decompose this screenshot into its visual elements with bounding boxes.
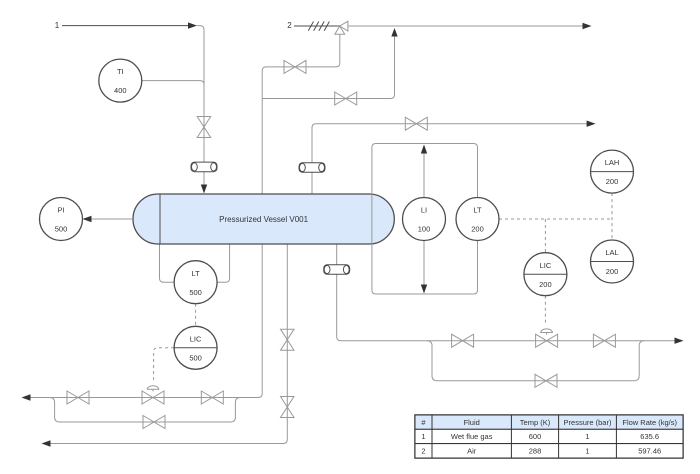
valve left line gate 2 [201,391,223,404]
svg-text:Fluid: Fluid [464,418,480,427]
hash marks stream 2 [308,22,329,31]
valve on relief inlet header [284,60,306,73]
svg-text:2: 2 [421,446,425,455]
svg-text:2: 2 [287,21,292,30]
instrument LAL 200 [591,240,634,283]
svg-text:LAH: LAH [605,158,620,167]
valve on feed line (vertical) [197,117,211,138]
valve drain lower (vertical) [281,397,295,418]
wire dashed LT500 to LIC500 [195,304,197,327]
svg-text:200: 200 [606,177,619,186]
svg-text:LAL: LAL [605,248,618,257]
arrow into vessel top [201,185,207,194]
svg-text:600: 600 [529,432,542,441]
valve on gas outlet [405,117,427,130]
svg-text:Pressurized Vessel V001: Pressurized Vessel V001 [219,215,308,224]
svg-text:288: 288 [529,446,542,455]
fitting on feed line [191,162,217,172]
wire branch line to flare with up arrow [262,34,394,99]
svg-text:200: 200 [606,267,619,276]
wire stream 2 inlet to relief valve [294,25,340,27]
wire LT500 right tap [217,244,230,282]
svg-text:LT: LT [473,206,482,215]
svg-text:635.6: 635.6 [640,432,659,441]
arrow liquid outlet right [675,338,684,344]
svg-text:1: 1 [585,432,589,441]
valve drain upper (vertical) [281,329,295,350]
instrument LAH 200 [591,150,634,193]
wire feed pipe down to vessel [197,26,204,185]
valve left line gate 1 [67,391,89,404]
fitting on liquid outlet [324,265,350,275]
control valve LV500 [142,386,164,404]
arrow drain left [42,440,51,446]
wire vessel top outlet to right arrow [312,124,588,194]
arrow flare outlet [583,23,592,29]
arrow stream 1 [188,22,197,28]
arrow gauge span up [421,145,427,154]
arrow blowdown left [22,394,31,400]
svg-text:200: 200 [471,225,484,234]
valve on flare branch [335,92,357,105]
instrument LIC 500 [174,326,217,369]
svg-text:LI: LI [421,206,427,215]
instrument LT 500 [174,261,217,304]
wire vessel bottom liquid outlet to right [337,244,675,341]
svg-text:500: 500 [55,225,68,234]
svg-text:500: 500 [189,288,202,297]
instrument LT 200 [456,198,499,241]
svg-text:PI: PI [57,206,64,215]
svg-text:Pressure (bar): Pressure (bar) [564,418,612,427]
svg-text:597.46: 597.46 [638,446,661,455]
wire dashed branch to LIC200 [544,219,546,253]
fitting on vessel top pipe [299,163,325,173]
wire stream 1 inlet [62,25,189,27]
svg-text:TI: TI [117,67,124,76]
svg-text:Wet flue gas: Wet flue gas [451,432,493,441]
svg-text:LT: LT [191,269,200,278]
wire PI connector [84,218,133,220]
svg-text:Air: Air [467,446,477,455]
valve right bypass [535,374,557,387]
svg-text:LIC: LIC [540,261,552,270]
svg-text:400: 400 [114,86,127,95]
wire left bypass loop [50,398,241,423]
svg-text:500: 500 [189,353,202,362]
instrument LIC 200 [524,253,567,296]
wire relief valve inlet riser and header to left vertical [30,34,340,398]
vessel V001 [133,194,394,244]
svg-text:1: 1 [421,432,425,441]
valve left bypass [143,416,165,429]
wire dashed LAH to LAL [611,193,613,240]
instrument LI 100 [403,198,446,241]
arrow up into flare header [391,28,397,37]
wire vessel bottom drain with two valves [50,244,287,444]
svg-text:100: 100 [418,225,431,234]
instrument PI 500 [40,198,83,241]
table stream data [415,415,683,458]
wire dashed LT200 to alarms [499,218,612,220]
wire right bypass loop [427,341,644,381]
svg-text:Temp (K): Temp (K) [520,418,551,427]
wire dashed LIC500 to control valve [154,348,175,383]
wire TI connector [142,81,204,85]
arrow gauge span down [421,285,427,294]
arrow gas outlet right [587,121,596,127]
svg-text:Flow Rate (kg/s): Flow Rate (kg/s) [622,418,677,427]
svg-text:LIC: LIC [190,334,202,343]
wire flare header to right arrow [348,25,583,27]
relief valve PSV [335,21,348,34]
wire dashed LIC200 to control valve [544,296,546,323]
wire LT500 left tap [160,244,175,282]
valve right line gate 1 [452,334,474,347]
instrument TI 400 [99,59,142,102]
arrow into PI [83,216,92,222]
control valve LV200 [536,329,558,347]
wire LI gauge center span [423,150,425,288]
svg-text:1: 1 [55,21,60,30]
wire LI level gauge loop [372,144,478,295]
svg-text:1: 1 [585,446,589,455]
valve right line gate 2 [593,334,615,347]
svg-text:200: 200 [539,280,552,289]
